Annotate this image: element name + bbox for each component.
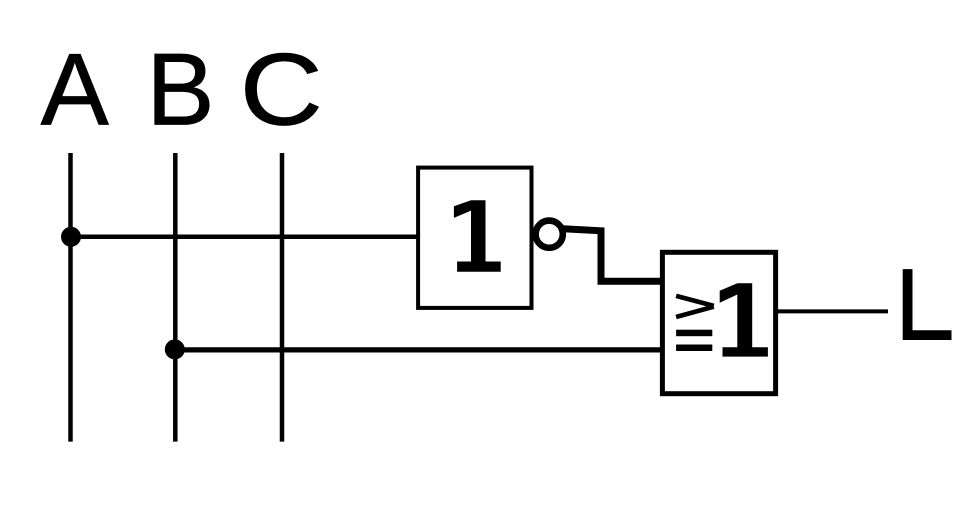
OR gate U2 box xyxy=(662,252,775,393)
svg-text:C: C xyxy=(240,34,323,148)
wire OR gate output to L xyxy=(778,309,888,313)
OR gate U2 label chevron of >= xyxy=(676,296,714,317)
junction dot on B xyxy=(165,339,185,359)
svg-text:A: A xyxy=(41,32,109,147)
NOT gate U1 label 1 xyxy=(454,200,501,272)
junction dot on A xyxy=(61,227,81,247)
wire B to OR gate input xyxy=(175,347,661,352)
input line A xyxy=(68,153,73,442)
svg-text:B: B xyxy=(146,32,214,147)
label L xyxy=(903,269,952,340)
input line C xyxy=(280,153,285,442)
NOT gate U1 box xyxy=(418,168,531,308)
OR gate U2 label equals bars of >= xyxy=(676,330,712,337)
OR gate U2 label 1 xyxy=(720,283,768,356)
label C xyxy=(240,34,323,148)
input line B xyxy=(173,153,178,442)
wire A to NOT gate input xyxy=(71,235,419,240)
wire NOT gate output to OR gate input xyxy=(563,229,661,281)
NOT gate U1 inversion bubble xyxy=(536,221,563,248)
